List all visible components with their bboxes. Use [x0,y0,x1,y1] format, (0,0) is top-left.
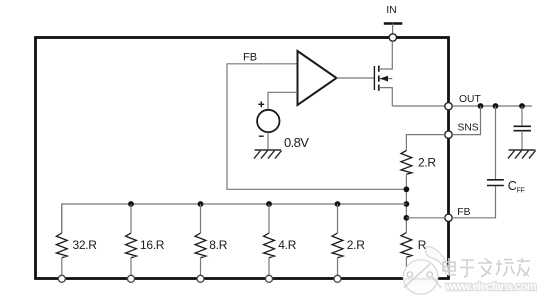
wire source to ground [267,132,269,150]
wire FB to op-amp inverting input [227,64,406,190]
junction FB pin / divider [404,215,410,221]
capacitor CFF [495,106,497,179]
resistor 16.R [126,204,165,282]
wire source to OUT pin [392,105,445,107]
wire IN pin to MOSFET drain [391,41,393,69]
resistor 2.R (upper) [401,151,412,175]
svg-text:FB: FB [243,52,257,64]
svg-text:8.R: 8.R [209,238,227,252]
ground (0.8V source) [254,150,282,159]
svg-text:IN: IN [386,4,397,16]
svg-text:www.elecfans.com: www.elecfans.com [445,281,537,293]
wire 0.8V source to op-amp noninverting input [268,92,298,110]
junction bus/4.R [266,201,272,207]
resistor 8.R [195,204,228,282]
body wire with arrow [380,78,393,80]
svg-text:FB: FB [457,207,470,218]
source connection [379,88,393,106]
wire 2.R bottom through junctions to R top [405,174,407,232]
svg-text:SNS: SNS [458,123,479,134]
junction OUT/SNS [478,103,484,109]
wire op-amp output to gate [337,77,375,79]
pin OUT [445,103,452,110]
watermark logo [403,247,448,295]
resistor 2.R (ladder) [332,204,365,282]
wire IN bar to pin [392,24,394,35]
svg-text:4.R: 4.R [278,238,296,252]
channel segments [378,66,380,72]
plus sign [258,103,264,105]
pin SNS [445,131,452,138]
junction OUT/Cout [519,103,525,109]
junction FB net / divider [404,186,410,192]
烧 [496,260,515,277]
子 [460,260,474,277]
友 [517,258,530,276]
svg-text:C: C [508,179,517,193]
svg-text:2.R: 2.R [347,238,365,252]
svg-text:2.R: 2.R [418,156,436,170]
junction bus/2.R [335,201,341,207]
drain connection [379,68,393,69]
minus sign [259,135,264,137]
svg-text:FF: FF [517,188,525,195]
电 [443,258,456,275]
voltage source V1 0.8V [257,110,279,132]
junction bus/8.R [198,201,204,207]
resistor 32.R [56,204,97,282]
pin FB [445,214,452,221]
svg-text:32.R: 32.R [73,238,98,252]
junction ladder bus / divider [404,201,410,207]
wire FB pin external to CFF [452,186,495,218]
wire OUT external rail [452,105,532,107]
wire FB pin internal [406,217,445,219]
junction OUT/CFF [493,103,499,109]
IC boundary box [36,38,449,279]
wire SNS internal to 2.R [406,135,445,151]
svg-text:0.8V: 0.8V [284,135,309,150]
gate bar [373,66,375,90]
IN supply bar [384,22,403,25]
watermark text 电子发烧友 [443,258,530,277]
resistor R [401,233,427,276]
resistor 4.R [264,204,297,282]
op-amp U1 [298,51,337,105]
transistor Q1 (NMOS pass FET) [374,66,392,106]
ladder bus wire [62,204,407,233]
wire SNS external to OUT [452,106,480,135]
capacitor Cout [521,106,523,126]
junction bus/16.R [128,201,134,207]
svg-text:16.R: 16.R [140,238,165,252]
pin IN (open circle on border) [389,34,396,41]
svg-text:OUT: OUT [459,94,481,105]
发 [478,258,492,277]
ground (output cap) [508,150,536,159]
